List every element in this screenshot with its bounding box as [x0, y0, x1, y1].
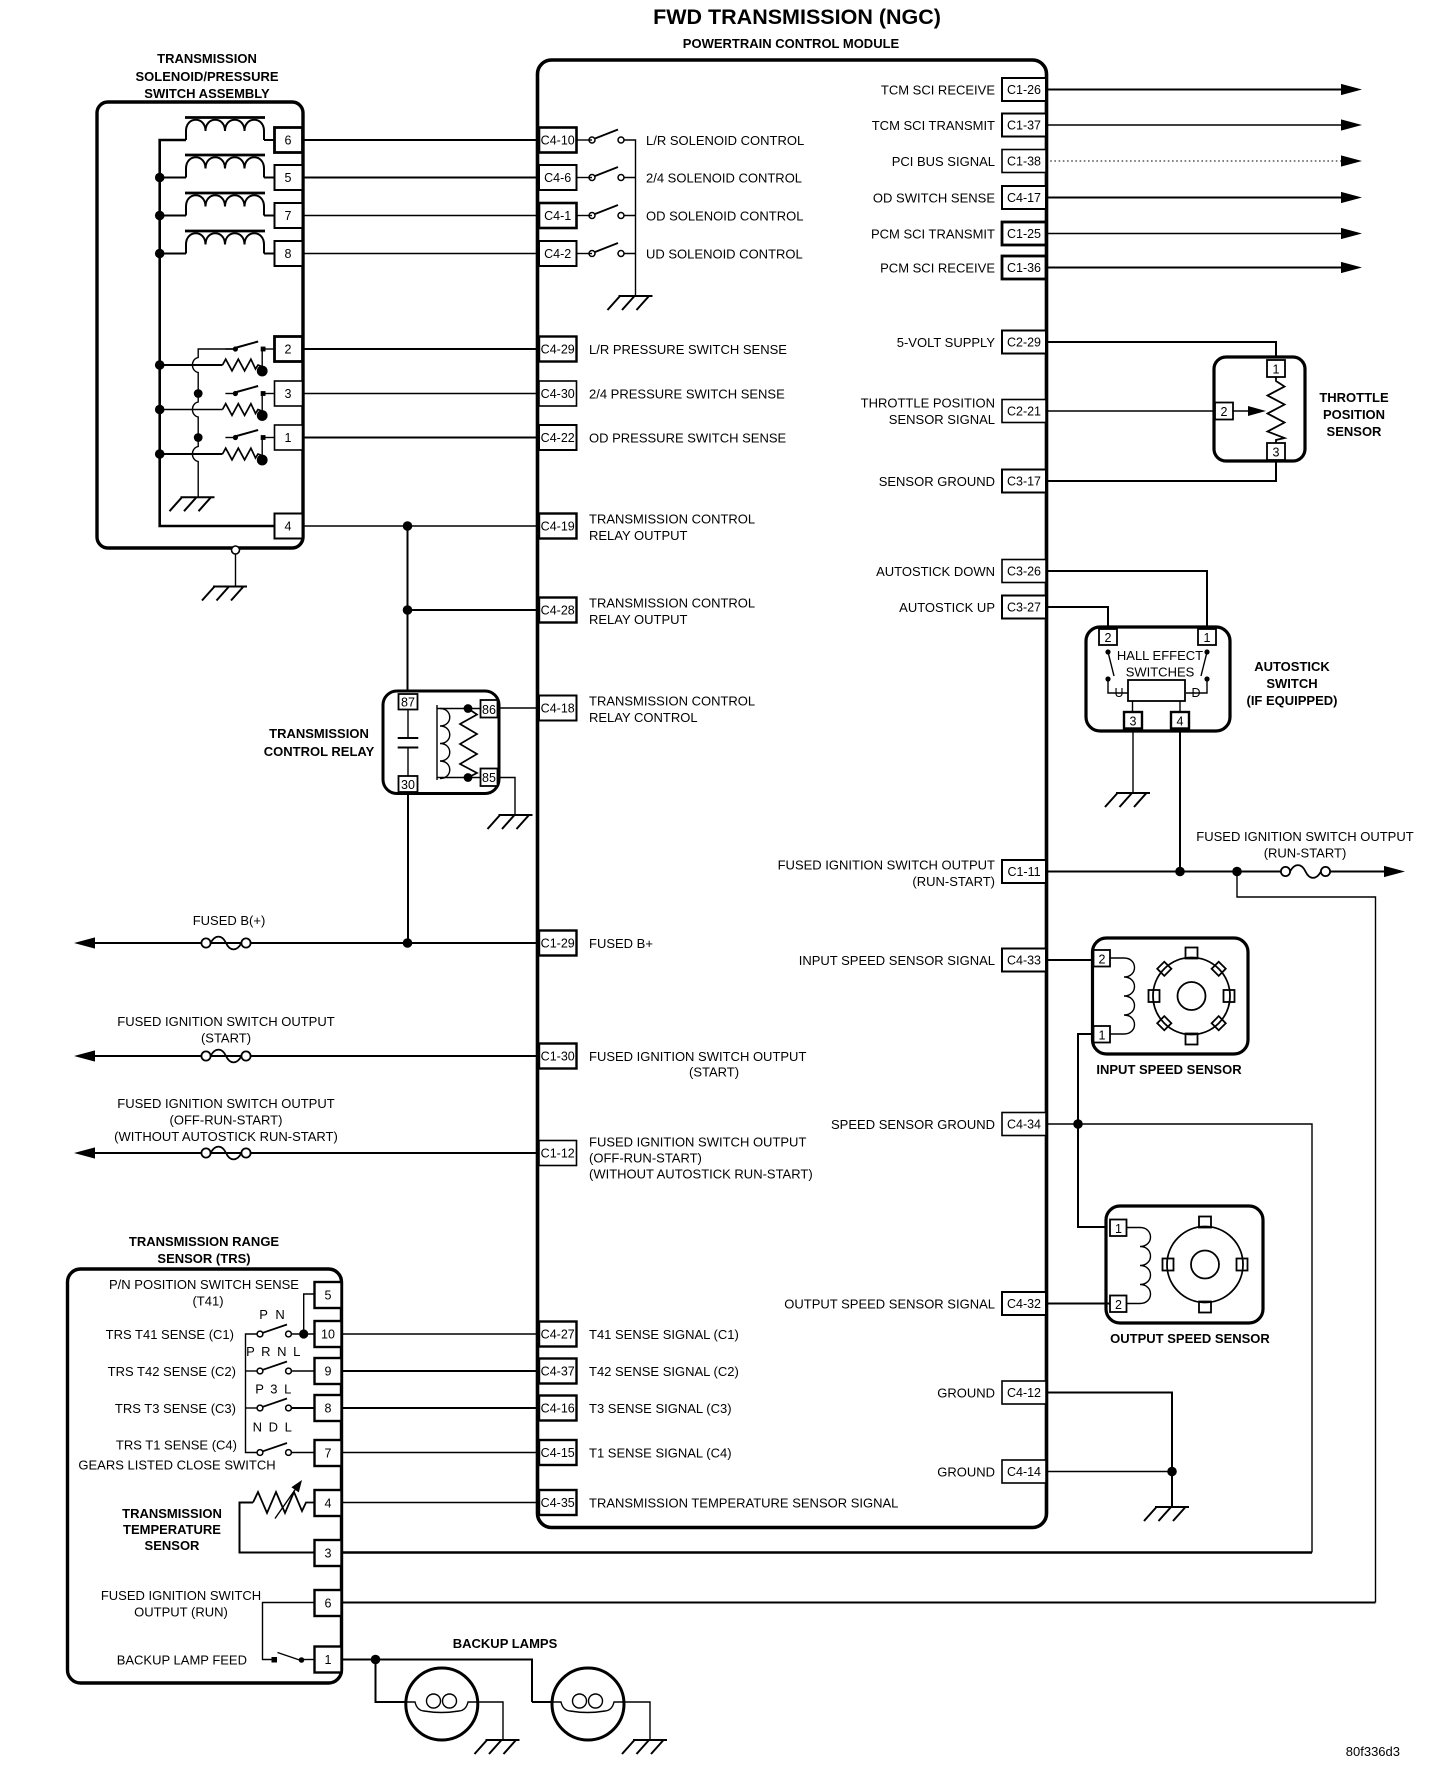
output sensor pin 1 box	[1110, 1220, 1127, 1237]
svg-text:1: 1	[1204, 631, 1211, 645]
wire pin5 to C4-6	[303, 177, 540, 179]
junction ground line/2-4 switch	[194, 389, 203, 398]
relay coil core	[436, 705, 438, 780]
relay coil winding	[440, 709, 450, 779]
wire C4-34 to sensor ground spine	[1046, 1124, 1312, 1553]
wire lamp2 to ground	[624, 1702, 650, 1740]
svg-text:C4-16: C4-16	[541, 1402, 575, 1416]
svg-text:HALL EFFECT: HALL EFFECT	[1117, 648, 1203, 663]
svg-text:SENSOR: SENSOR	[145, 1538, 201, 1553]
svg-text:1: 1	[1115, 1222, 1122, 1236]
OD pressure switch (pin 1)	[225, 430, 274, 440]
TPS pin 2 box	[1215, 403, 1233, 420]
ground lamp1	[475, 1740, 520, 1754]
wire relay pin30 to fused B+ row	[407, 792, 409, 943]
svg-text:L/R SOLENOID CONTROL: L/R SOLENOID CONTROL	[646, 133, 804, 148]
arrow RUN-START right	[1384, 866, 1405, 877]
junction bus/coil7	[155, 211, 165, 221]
wire pin6 to C4-10	[303, 139, 540, 141]
svg-text:FUSED B(+): FUSED B(+)	[193, 913, 266, 928]
wire TRS pin1 to lamps	[342, 1660, 533, 1703]
wire PCI BUS SIGNAL (dashed)	[1046, 160, 1342, 162]
wire lamp1 to ground	[478, 1702, 503, 1740]
svg-text:THROTTLE POSITION: THROTTLE POSITION	[861, 395, 995, 410]
svg-text:TCM SCI TRANSMIT: TCM SCI TRANSMIT	[872, 118, 995, 133]
svg-text:2/4 PRESSURE SWITCH SENSE: 2/4 PRESSURE SWITCH SENSE	[589, 386, 785, 401]
svg-text:TEMPERATURE: TEMPERATURE	[123, 1522, 221, 1537]
svg-text:10: 10	[321, 1328, 335, 1342]
junction relay30/fused B+	[403, 938, 413, 948]
wire assembly case to ground	[235, 554, 237, 587]
wire pin8 to C4-16	[342, 1407, 540, 1409]
fuse RUN-START	[1281, 865, 1330, 878]
hall switch D (right)	[1204, 649, 1209, 654]
wire autostick pin3 to ground	[1132, 729, 1134, 794]
2/4 pressure switch (pin 3)	[225, 386, 274, 396]
connector C4-35	[539, 1490, 577, 1515]
svg-text:C4-17: C4-17	[1007, 191, 1041, 205]
wire pin3 to sensor ground spine	[342, 1551, 1313, 1554]
L/R pressure switch (pin 2)	[225, 342, 274, 352]
svg-text:C1-25: C1-25	[1007, 227, 1041, 241]
svg-text:T42 SENSE SIGNAL (C2): T42 SENSE SIGNAL (C2)	[589, 1364, 739, 1379]
svg-text:P/N POSITION SWITCH SENSE: P/N POSITION SWITCH SENSE	[109, 1277, 299, 1292]
ground PCM grounds	[1144, 1507, 1189, 1521]
svg-text:C1-30: C1-30	[541, 1050, 575, 1064]
svg-text:3: 3	[1273, 446, 1280, 460]
svg-text:5: 5	[285, 171, 292, 185]
svg-text:RELAY OUTPUT: RELAY OUTPUT	[589, 612, 688, 627]
svg-text:N D L: N D L	[253, 1420, 294, 1435]
wire C4-1 to switch	[577, 215, 593, 217]
connector C1-36	[1002, 256, 1046, 279]
svg-text:8: 8	[325, 1402, 332, 1416]
connector C4-18	[539, 696, 577, 721]
connector C4-17	[1002, 186, 1046, 209]
junction T41/pin5	[299, 1329, 308, 1338]
junction bus/resistor OD	[155, 449, 165, 459]
svg-text:4: 4	[285, 520, 292, 534]
svg-text:C1-36: C1-36	[1007, 261, 1041, 275]
arrow TCM SCI TRANSMIT	[1341, 119, 1362, 130]
svg-text:SWITCHES: SWITCHES	[1126, 665, 1195, 680]
svg-text:OUTPUT SPEED SENSOR: OUTPUT SPEED SENSOR	[1110, 1331, 1270, 1346]
wire coil5 to pin 5	[264, 177, 275, 179]
TRS pin 10 box	[315, 1321, 342, 1347]
connector C4-16	[539, 1396, 577, 1421]
wire coil6 to pin 6	[264, 139, 275, 141]
svg-text:4: 4	[325, 1497, 332, 1511]
backup lamp 1	[406, 1668, 478, 1740]
svg-text:PCM SCI RECEIVE: PCM SCI RECEIVE	[880, 260, 995, 275]
junction sensor ground spine	[1073, 1119, 1083, 1129]
svg-text:RELAY OUTPUT: RELAY OUTPUT	[589, 528, 688, 543]
junction spine/C4-28	[403, 605, 413, 615]
svg-text:2: 2	[285, 343, 292, 357]
svg-text:OD SOLENOID CONTROL: OD SOLENOID CONTROL	[646, 208, 803, 223]
TRS switch T41	[257, 1325, 291, 1337]
wire input pin1 to output pin1 spine	[1078, 1034, 1110, 1227]
arrow OD SWITCH SENSE	[1341, 192, 1362, 203]
wire PCM SCI RECEIVE	[1046, 267, 1342, 269]
ground autostick	[1105, 793, 1150, 807]
input sensor pickup coil	[1110, 958, 1135, 1034]
pin 5 box	[275, 165, 303, 190]
wire coil8 stub	[160, 253, 186, 255]
arrow PCM SCI RECEIVE	[1341, 262, 1362, 273]
svg-text:BACKUP LAMP FEED: BACKUP LAMP FEED	[117, 1652, 247, 1667]
svg-text:C4-37: C4-37	[541, 1365, 575, 1379]
relay pin 86 box	[481, 700, 498, 718]
svg-text:1: 1	[325, 1653, 332, 1667]
junction bus/resistor L/R	[155, 360, 165, 370]
svg-text:TCM SCI RECEIVE: TCM SCI RECEIVE	[881, 82, 995, 97]
svg-text:3: 3	[325, 1547, 332, 1561]
TRS pin 6 box	[315, 1590, 342, 1616]
svg-text:C4-28: C4-28	[541, 604, 575, 618]
svg-text:9: 9	[325, 1365, 332, 1379]
junction lamp feed	[371, 1655, 381, 1665]
svg-text:FWD TRANSMISSION (NGC): FWD TRANSMISSION (NGC)	[653, 5, 941, 29]
svg-text:4: 4	[1177, 715, 1184, 729]
transmission solenoid/pressure switch assembly box	[97, 102, 303, 548]
svg-text:C1-37: C1-37	[1007, 119, 1041, 133]
wire C3-27 to autostick pin2	[1046, 607, 1108, 629]
svg-text:L/R PRESSURE SWITCH SENSE: L/R PRESSURE SWITCH SENSE	[589, 342, 787, 357]
autostick pin 3 box	[1124, 712, 1142, 729]
temperature sensor arrow	[275, 1487, 297, 1519]
pin 7 box	[275, 203, 303, 228]
wire pin9 to C4-37	[342, 1370, 540, 1372]
junction pin4/C4-19	[403, 521, 413, 531]
ground pressure switches	[170, 497, 215, 511]
svg-text:C4-15: C4-15	[541, 1446, 575, 1460]
wire FUSED IGN START row	[94, 1055, 539, 1057]
wire relay pin86 to C4-18	[498, 707, 540, 709]
svg-text:TRANSMISSION: TRANSMISSION	[269, 726, 369, 741]
connector C1-12	[539, 1141, 577, 1166]
svg-text:C4-14: C4-14	[1007, 1465, 1041, 1479]
OD pressure resistor	[223, 438, 268, 465]
ground solenoid drivers	[608, 296, 653, 310]
transmission temperature sensor resistor	[253, 1492, 315, 1513]
svg-text:C4-1: C4-1	[544, 209, 571, 223]
svg-text:OUTPUT SPEED SENSOR SIGNAL: OUTPUT SPEED SENSOR SIGNAL	[784, 1296, 995, 1311]
svg-text:2: 2	[1221, 405, 1228, 419]
wire PCM SCI TRANSMIT	[1046, 233, 1342, 235]
wire relay coil bottom to pin85	[437, 777, 481, 779]
connector C4-1	[539, 203, 577, 228]
svg-text:C4-18: C4-18	[541, 702, 575, 716]
svg-text:3: 3	[285, 387, 292, 401]
TPS pin 1 box	[1267, 360, 1285, 377]
svg-text:2: 2	[1115, 1298, 1122, 1312]
wire coil7 to pin 7	[264, 215, 275, 217]
svg-text:GROUND: GROUND	[937, 1385, 995, 1400]
svg-text:C4-19: C4-19	[541, 520, 575, 534]
wire autostick pin4 down to C1-11 row	[1179, 729, 1181, 872]
backup lamp switch	[272, 1657, 278, 1663]
svg-text:(RUN-START): (RUN-START)	[912, 874, 995, 889]
arrow PCM SCI TRANSMIT	[1341, 228, 1362, 239]
arrow PCI BUS SIGNAL	[1341, 155, 1362, 166]
wire pin8 to C4-2	[303, 253, 540, 255]
connector C4-6	[539, 165, 577, 190]
connector C4-32	[1002, 1292, 1046, 1315]
svg-text:THROTTLE: THROTTLE	[1319, 390, 1389, 405]
junction ground spine	[1167, 1467, 1177, 1477]
svg-text:TRS T42 SENSE (C2): TRS T42 SENSE (C2)	[108, 1364, 236, 1379]
connector C1-30	[539, 1044, 577, 1069]
svg-text:C4-35: C4-35	[541, 1496, 575, 1510]
connector C4-15	[539, 1440, 577, 1465]
TRS pin 8 box	[315, 1395, 342, 1421]
fuse IGN OFF-RUN-START	[201, 1147, 250, 1160]
svg-text:U: U	[1114, 686, 1123, 700]
junction coil/resistor top	[464, 704, 473, 713]
junction ground line/OD switch	[194, 433, 203, 442]
solenoid coil OD (pin 7)	[185, 193, 265, 216]
hall switch U (left)	[1105, 649, 1110, 654]
wire FUSED B+ row	[94, 942, 539, 944]
wire pin10 to C4-27	[342, 1333, 540, 1335]
driver switch L/R solenoid	[589, 130, 624, 144]
svg-text:TRANSMISSION CONTROL: TRANSMISSION CONTROL	[589, 511, 755, 526]
TPS potentiometer resistor	[1268, 377, 1285, 443]
svg-text:OUTPUT (RUN): OUTPUT (RUN)	[134, 1605, 228, 1620]
svg-text:TRANSMISSION: TRANSMISSION	[122, 1506, 222, 1521]
svg-text:P R N L: P R N L	[246, 1344, 302, 1359]
connector C1-29	[539, 931, 577, 956]
svg-text:85: 85	[482, 771, 496, 785]
ground assembly case	[202, 587, 247, 601]
svg-text:(OFF-RUN-START): (OFF-RUN-START)	[589, 1151, 702, 1166]
PCM module box	[538, 60, 1047, 1528]
svg-text:C1-38: C1-38	[1007, 155, 1041, 169]
assembly case ground connector circle	[232, 546, 240, 554]
svg-text:FUSED IGNITION SWITCH OUTPUT: FUSED IGNITION SWITCH OUTPUT	[778, 857, 995, 872]
svg-text:7: 7	[325, 1447, 332, 1461]
svg-text:3: 3	[1130, 715, 1137, 729]
svg-text:T3 SENSE SIGNAL (C3): T3 SENSE SIGNAL (C3)	[589, 1401, 732, 1416]
TPS wiper arrow	[1233, 410, 1250, 412]
wire pin2 to C4-29	[303, 348, 540, 350]
svg-text:AUTOSTICK: AUTOSTICK	[1254, 659, 1330, 674]
svg-text:C4-10: C4-10	[541, 134, 575, 148]
svg-text:(START): (START)	[689, 1065, 739, 1080]
wire C2-29 to TPS pin1	[1046, 342, 1276, 360]
svg-text:SWITCH: SWITCH	[1266, 676, 1317, 691]
svg-text:AUTOSTICK UP: AUTOSTICK UP	[899, 600, 995, 615]
svg-text:CONTROL RELAY: CONTROL RELAY	[264, 744, 375, 759]
svg-text:PCI BUS SIGNAL: PCI BUS SIGNAL	[892, 154, 995, 169]
pin 4 box	[275, 514, 303, 539]
svg-text:87: 87	[401, 696, 415, 710]
junction C1-11/TRS pin6 feed	[1232, 867, 1242, 877]
throttle position sensor box	[1214, 357, 1305, 461]
autostick pin 4 box	[1171, 712, 1189, 729]
driver switch UD solenoid	[589, 243, 624, 257]
pin 8 box	[275, 241, 303, 266]
connector C1-25	[1002, 222, 1046, 245]
autostick switch box	[1086, 627, 1230, 731]
svg-text:BACKUP LAMPS: BACKUP LAMPS	[453, 1636, 558, 1651]
svg-text:C1-29: C1-29	[541, 937, 575, 951]
wire pin1 to C4-22	[303, 437, 540, 439]
svg-text:PCM SCI TRANSMIT: PCM SCI TRANSMIT	[871, 226, 995, 241]
junction pin4/C1-11	[1175, 867, 1185, 877]
svg-text:C1-12: C1-12	[541, 1147, 575, 1161]
connector C1-11	[1002, 860, 1046, 883]
wire pin4 to C4-35	[342, 1502, 540, 1504]
svg-text:SWITCH ASSEMBLY: SWITCH ASSEMBLY	[144, 86, 270, 101]
connector C3-26	[1002, 560, 1046, 583]
svg-text:OD PRESSURE SWITCH SENSE: OD PRESSURE SWITCH SENSE	[589, 430, 787, 445]
connector C2-21	[1002, 400, 1046, 423]
junction bus/coil8	[155, 249, 165, 259]
TRS pin 5 box	[315, 1282, 342, 1308]
TRS switch T3	[257, 1399, 291, 1411]
connector C4-37	[539, 1359, 577, 1384]
svg-text:SENSOR (TRS): SENSOR (TRS)	[157, 1251, 250, 1266]
output speed sensor box	[1106, 1206, 1263, 1323]
svg-text:C4-6: C4-6	[544, 171, 571, 185]
svg-text:C4-30: C4-30	[541, 387, 575, 401]
wire pressure-switch ground line (bulges around crossing wires)	[192, 349, 235, 497]
svg-text:C1-26: C1-26	[1007, 83, 1041, 97]
connector C4-27	[539, 1322, 577, 1347]
TRS pin 4 box	[315, 1490, 342, 1516]
connector C1-37	[1002, 114, 1046, 137]
wire TCM SCI TRANSMIT	[1046, 124, 1342, 126]
svg-text:SENSOR GROUND: SENSOR GROUND	[879, 474, 995, 489]
svg-text:(START): (START)	[201, 1031, 251, 1046]
ground relay coil	[488, 815, 533, 829]
wire relay coil top to pin86	[437, 708, 481, 710]
connector C1-38	[1002, 150, 1046, 173]
wire rocker to pin3	[1132, 701, 1134, 712]
connector C2-29	[1002, 331, 1046, 354]
svg-text:FUSED IGNITION SWITCH OUTPUT: FUSED IGNITION SWITCH OUTPUT	[589, 1135, 806, 1150]
TRS pin 9 box	[315, 1358, 342, 1384]
svg-text:80f336d3: 80f336d3	[1346, 1744, 1400, 1759]
connector C4-22	[539, 425, 577, 450]
wire RUN-START feed down right side to TRS pin6 row	[1237, 872, 1376, 1603]
svg-text:C4-29: C4-29	[541, 343, 575, 357]
wire coil5 stub	[160, 177, 186, 179]
solenoid coil L/R (pin 6)	[185, 118, 265, 141]
svg-text:GROUND: GROUND	[937, 1464, 995, 1479]
svg-text:5-VOLT SUPPLY: 5-VOLT SUPPLY	[897, 335, 996, 350]
svg-text:C3-17: C3-17	[1007, 475, 1041, 489]
driver switch 2/4 solenoid	[589, 167, 624, 181]
connector C3-17	[1002, 470, 1046, 493]
relay contact capacitor plates	[407, 710, 409, 738]
wire lamp2 feed	[532, 1701, 552, 1703]
svg-text:(IF EQUIPPED): (IF EQUIPPED)	[1246, 693, 1337, 708]
svg-text:POSITION: POSITION	[1323, 407, 1385, 422]
wire bus to OD pressure resistor	[160, 453, 223, 455]
svg-text:OD SWITCH SENSE: OD SWITCH SENSE	[873, 190, 995, 205]
backup lamp 2	[552, 1668, 624, 1740]
wire C4-14 to ground spine	[1046, 1471, 1172, 1473]
L/R pressure resistor	[223, 349, 268, 376]
svg-text:RELAY CONTROL: RELAY CONTROL	[589, 710, 698, 725]
svg-text:C4-2: C4-2	[544, 247, 571, 261]
svg-text:FUSED IGNITION SWITCH: FUSED IGNITION SWITCH	[101, 1588, 261, 1603]
wire OD SWITCH SENSE	[1046, 197, 1342, 199]
output sensor tone wheel	[1163, 1217, 1248, 1313]
svg-text:SOLENOID/PRESSURE: SOLENOID/PRESSURE	[135, 69, 278, 84]
svg-text:6: 6	[325, 1597, 332, 1611]
connector C4-29	[539, 337, 577, 362]
arrow FUSED IGN START left	[74, 1050, 95, 1061]
connector C4-28	[539, 598, 577, 623]
solenoid coil 2/4 (pin 5)	[185, 155, 265, 178]
autostick rocker bar	[1128, 680, 1185, 701]
svg-text:5: 5	[325, 1289, 332, 1303]
connector C4-14	[1002, 1460, 1046, 1483]
connector C4-10	[539, 128, 577, 153]
svg-text:T1 SENSE SIGNAL (C4): T1 SENSE SIGNAL (C4)	[589, 1445, 732, 1460]
svg-text:1: 1	[1099, 1029, 1106, 1043]
svg-text:T41 SENSE SIGNAL (C1): T41 SENSE SIGNAL (C1)	[589, 1327, 739, 1342]
connector C4-33	[1002, 949, 1046, 972]
connector C4-2	[539, 241, 577, 266]
svg-text:SPEED SENSOR GROUND: SPEED SENSOR GROUND	[831, 1117, 995, 1132]
TRS pin 7 box	[315, 1440, 342, 1466]
svg-text:TRS T1 SENSE (C4): TRS T1 SENSE (C4)	[116, 1437, 237, 1452]
connector C1-26	[1002, 78, 1046, 101]
wire C4-6 to switch	[577, 177, 593, 179]
svg-text:TRANSMISSION TEMPERATURE SENSO: TRANSMISSION TEMPERATURE SENSOR SIGNAL	[589, 1495, 898, 1510]
TRS pin 1 box	[315, 1647, 342, 1673]
wire pin7 to C4-1	[303, 215, 540, 217]
svg-text:P 3 L: P 3 L	[255, 1382, 293, 1397]
arrow TCM SCI RECEIVE	[1341, 84, 1362, 95]
arrow FUSED IGN OFF-RUN-START left	[74, 1147, 95, 1158]
svg-text:FUSED IGNITION SWITCH OUTPUT: FUSED IGNITION SWITCH OUTPUT	[1196, 829, 1413, 844]
svg-text:FUSED IGNITION SWITCH OUTPUT: FUSED IGNITION SWITCH OUTPUT	[117, 1014, 334, 1029]
transmission control relay box	[383, 691, 499, 794]
connector C3-27	[1002, 596, 1046, 619]
TRS pin 3 box	[315, 1540, 342, 1566]
svg-text:INPUT SPEED SENSOR SIGNAL: INPUT SPEED SENSOR SIGNAL	[799, 953, 995, 968]
wire relay spine to C4-28	[408, 609, 540, 611]
connector C4-12	[1002, 1381, 1046, 1404]
input speed sensor box	[1093, 938, 1249, 1054]
fuse B+	[201, 937, 250, 950]
svg-text:2: 2	[1105, 631, 1112, 645]
wire driver switch common bus to ground	[624, 140, 636, 296]
pin 6 box	[275, 128, 303, 153]
connector C4-30	[539, 381, 577, 406]
wire coil8 to pin 8	[264, 253, 275, 255]
svg-text:30: 30	[401, 778, 415, 792]
wire C4-10 to switch	[577, 139, 593, 141]
connector C4-34	[1002, 1113, 1046, 1136]
svg-text:C1-11: C1-11	[1007, 865, 1040, 879]
autostick pin 1 box	[1198, 629, 1216, 645]
relay coil resistor	[460, 709, 477, 778]
wire pin6 to backup lamp switch	[263, 1603, 315, 1660]
svg-text:C2-21: C2-21	[1007, 405, 1041, 419]
svg-text:1: 1	[285, 431, 292, 445]
svg-text:2/4 SOLENOID CONTROL: 2/4 SOLENOID CONTROL	[646, 170, 802, 185]
svg-text:C4-27: C4-27	[541, 1328, 575, 1342]
svg-text:P N: P N	[259, 1307, 286, 1322]
svg-text:(OFF-RUN-START): (OFF-RUN-START)	[170, 1113, 283, 1128]
